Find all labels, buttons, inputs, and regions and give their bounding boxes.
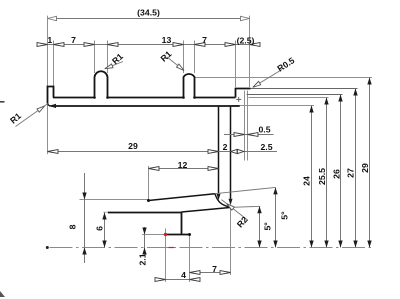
ext line step face: [235, 41, 237, 88]
svg-text:2: 2: [223, 142, 228, 152]
lower part: block top: [108, 212, 182, 214]
leader R1 left corner: [16, 104, 48, 127]
ext line bump2 right: [194, 41, 196, 74]
svg-text:5°: 5°: [263, 222, 273, 231]
profile: left lip: [48, 87, 54, 104]
center mark + near step: [236, 98, 241, 100]
ext line 29 height: [195, 77, 372, 79]
svg-text:13: 13: [162, 35, 172, 45]
dim 2.5: [231, 149, 238, 153]
ext line bump2 left: [183, 41, 185, 74]
lower part: R2 step arc: [215, 194, 233, 208]
dim 29 vertical: [369, 78, 371, 248]
profile: bump 1 (R1): [95, 71, 108, 97]
ext line 25.5 height: [249, 97, 329, 99]
ext line x=230 lower: [230, 207, 232, 275]
svg-text:6: 6: [95, 226, 105, 231]
dim (34.5): [48, 18, 250, 20]
ext line 0.5 left: [244, 91, 246, 161]
profile: right ledge top / 27 ext: [251, 88, 358, 90]
svg-text:(2.5): (2.5): [237, 35, 255, 45]
dim 7 bottom: [190, 272, 231, 274]
red vertex dot: [164, 233, 167, 236]
ext line 24 height: [232, 105, 314, 107]
leader R0.5: [253, 70, 282, 88]
dim 6: [104, 213, 106, 248]
edge mark left: [0, 101, 5, 103]
svg-text:2.5: 2.5: [260, 142, 272, 152]
profile: left bottom fillet R1: [48, 103, 52, 106]
svg-text:8: 8: [68, 224, 78, 229]
dim 29: [48, 151, 278, 153]
dim 12: [149, 168, 219, 170]
ext line x=249.8: [249, 16, 251, 87]
ext line 2.1: [142, 234, 165, 236]
svg-text:29: 29: [128, 141, 138, 151]
profile: wall left edge: [218, 106, 220, 194]
dim 25.5 vertical: [326, 98, 328, 248]
dim 2.1: [144, 227, 146, 254]
svg-text:27: 27: [346, 168, 356, 178]
centerline: [46, 246, 49, 249]
lower part: block step wall: [181, 213, 183, 235]
lower part: lower sloped surface: [182, 207, 233, 212]
dim 27 vertical: [355, 89, 357, 248]
dim 8: [84, 173, 86, 263]
svg-text:24: 24: [302, 176, 312, 186]
svg-text:29: 29: [360, 163, 370, 173]
lower part: block bottom edge: [166, 234, 190, 236]
svg-text:7: 7: [212, 264, 217, 274]
profile: right ledge bottom / 26 ext: [247, 94, 343, 96]
dim 24 vertical: [311, 106, 313, 248]
svg-text:0.5: 0.5: [258, 124, 270, 134]
svg-text:4: 4: [181, 270, 186, 280]
profile: bump 2 (R1): [184, 74, 195, 97]
ext line x=47.6 lower: [47, 104, 49, 155]
dim 5deg inner: [259, 206, 261, 247]
leader R1 bump2: [167, 57, 184, 71]
leader R2: [222, 200, 248, 220]
dim 0.5: [224, 134, 274, 136]
profile: right step with R0.5: [236, 89, 251, 98]
svg-text:7: 7: [71, 35, 76, 45]
svg-text:5°: 5°: [279, 211, 289, 220]
ext line 8 height: [80, 199, 149, 201]
red dash on centerline: [169, 247, 175, 249]
ext line x=47.6 upper: [47, 16, 49, 86]
ext line 0.5 right: [247, 91, 249, 161]
dim 26 vertical: [340, 95, 342, 248]
profile: wall right edge: [230, 106, 232, 199]
lower part: 5 deg sloped surface: [147, 199, 150, 202]
profile: bottom surface: [51, 105, 240, 107]
ext line 12 left: [148, 166, 150, 199]
svg-text:1: 1: [47, 35, 52, 45]
ext line x=189: [189, 236, 191, 283]
dim row: 1, 7, 13, 7, (2.5): [38, 44, 260, 46]
svg-text:7: 7: [202, 35, 207, 45]
ext line lip right: [53, 41, 55, 87]
svg-text:12: 12: [178, 160, 188, 170]
edge mark bottom-left corner: [0, 291, 5, 297]
ext line bump1 right: [107, 41, 109, 74]
ext line bump1 left: [94, 41, 96, 74]
svg-text:2.1: 2.1: [138, 253, 148, 265]
ext line x=165: [165, 229, 167, 283]
svg-text:(34.5): (34.5): [137, 8, 160, 18]
ext line 6 top: [103, 211, 108, 213]
svg-text:26: 26: [331, 169, 341, 179]
dim 4: [155, 279, 200, 281]
dim 5deg outer: [275, 187, 277, 247]
leader R1 bump1: [105, 62, 123, 69]
profile: top surface segments: [53, 97, 95, 99]
svg-text:25.5: 25.5: [317, 168, 327, 185]
